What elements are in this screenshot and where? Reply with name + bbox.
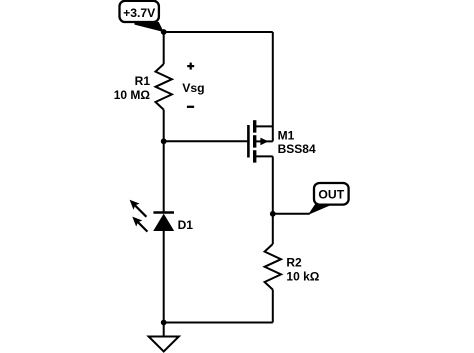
wire left branch upper (supply to R1) [163, 32, 165, 64]
label M1 BSS84 [278, 128, 316, 156]
label R2 value [286, 256, 319, 284]
wire D1 to bottom rail [163, 231, 165, 323]
wire OUT stub [273, 213, 310, 215]
resistor R1 [156, 64, 172, 110]
svg-text:10 kΩ: 10 kΩ [286, 270, 319, 284]
label Vsg plus sign [187, 63, 194, 70]
+3.7V supply flag [120, 1, 164, 32]
svg-text:Vsg: Vsg [182, 81, 204, 95]
wire ground stub [163, 323, 165, 337]
photodiode D1 cathode bar [153, 211, 174, 213]
wire bottom rail [164, 322, 273, 324]
ground [149, 337, 179, 352]
wire R2 to bottom rail [272, 290, 274, 323]
transistor M1 channel segments [253, 120, 256, 162]
svg-text:10 MΩ: 10 MΩ [114, 88, 151, 102]
node gate junction [161, 138, 167, 144]
transistor M1 gate bar [247, 125, 250, 158]
svg-text:R1: R1 [135, 74, 151, 88]
wire R1 to gate node and D1 [163, 110, 165, 213]
wire top rail [164, 31, 273, 33]
svg-text:D1: D1 [178, 218, 194, 232]
svg-text:+3.7V: +3.7V [123, 6, 156, 20]
svg-text:BSS84: BSS84 [278, 142, 316, 156]
photodiode D1 triangle [153, 214, 174, 231]
svg-text:R2: R2 [286, 256, 302, 270]
transistor M1 body arrow [255, 138, 273, 146]
node ground junction [161, 320, 167, 326]
photodiode D1 light arrow 1 [130, 200, 147, 217]
wire gate [164, 140, 248, 142]
transistor M1 source connection [255, 125, 273, 127]
node supply junction [161, 29, 167, 35]
node OUT junction [270, 211, 276, 217]
label R1 value [114, 74, 151, 102]
OUT flag [308, 183, 349, 215]
label Vsg minus sign [187, 106, 194, 108]
photodiode D1 light arrow 2 [132, 217, 147, 232]
svg-text:OUT: OUT [318, 187, 344, 201]
svg-text:M1: M1 [278, 128, 295, 142]
wire right branch drain to R2 [272, 156, 274, 244]
wire right branch source (rail to body) [272, 32, 274, 141]
resistor R2 [265, 244, 281, 290]
transistor M1 drain connection [255, 155, 273, 157]
